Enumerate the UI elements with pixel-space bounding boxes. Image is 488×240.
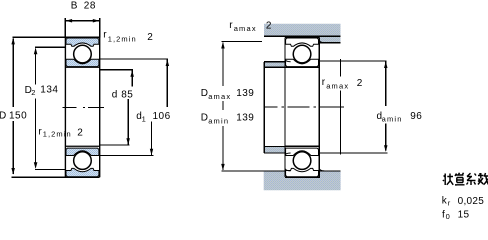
d_a level extension lines	[320, 61, 388, 153]
svg-text:106: 106	[153, 111, 171, 122]
svg-text:2: 2	[31, 88, 35, 97]
svg-text:139: 139	[236, 112, 254, 123]
ball (bottom section)	[293, 152, 311, 170]
svg-text:85: 85	[121, 89, 133, 100]
dimension D2: extension lines	[35, 47, 65, 169]
bearing outline left view	[65, 37, 99, 177]
svg-text:f: f	[442, 209, 445, 220]
inner ring bottom section	[286, 148, 319, 155]
svg-text:d: d	[112, 89, 118, 100]
svg-text:amax: amax	[234, 24, 257, 33]
svg-text:amax: amax	[208, 92, 231, 101]
svg-text:134: 134	[40, 85, 58, 96]
outer ring bottom section	[66, 168, 99, 176]
dimension D: extension lines (top edge + bottom edge extended)	[13, 36, 100, 38]
svg-text:2: 2	[147, 32, 153, 43]
fillet r_a housing bottom right	[319, 168, 324, 171]
svg-text:amin: amin	[382, 115, 403, 124]
housing top block	[264, 24, 341, 43]
dimension d_amin: leaders + arrows	[385, 61, 387, 150]
housing bottom outline	[285, 171, 341, 178]
svg-text:1,2min: 1,2min	[43, 130, 72, 139]
svg-text:15: 15	[458, 209, 470, 220]
svg-text:D: D	[201, 88, 208, 99]
bore lines left view	[65, 67, 99, 146]
housing bottom block	[264, 171, 341, 190]
dimension Da: arrows	[221, 42, 225, 49]
svg-text:1,2min: 1,2min	[108, 35, 137, 44]
right bearing section	[285, 38, 319, 177]
svg-text:B: B	[71, 0, 78, 11]
svg-text:139: 139	[236, 88, 254, 99]
bearing outline right view	[285, 38, 319, 177]
dimension B: arrows	[66, 19, 73, 23]
svg-text:28: 28	[84, 0, 96, 11]
svg-text:D: D	[0, 111, 6, 122]
housing top outline	[264, 36, 341, 42]
dimension d: extension + leaders + arrows	[100, 69, 133, 71]
svg-text:0,025: 0,025	[458, 196, 485, 207]
svg-text:2: 2	[357, 78, 363, 89]
header 计算系数 (stylized strokes)	[443, 173, 488, 185]
svg-text:amin: amin	[208, 117, 229, 126]
svg-text:2: 2	[266, 21, 272, 32]
inner ring bottom section	[66, 148, 99, 155]
dimension d1: extension + leaders + arrows	[100, 58, 168, 60]
dimension D: arrows	[11, 38, 15, 45]
dimension Da: extension lines	[222, 42, 285, 171]
svg-text:2: 2	[77, 128, 83, 139]
inner ring top section	[286, 59, 319, 66]
dimension D2: arrows	[34, 48, 38, 55]
svg-text:D: D	[201, 113, 208, 124]
shaft shoulder strip bottom	[264, 146, 285, 153]
svg-text:96: 96	[410, 111, 422, 122]
fillet r_a bottom shaft	[285, 153, 291, 155]
shaft break line	[263, 62, 265, 153]
dimension D: line	[12, 39, 14, 175]
shaft shoulder strip top	[264, 62, 285, 68]
svg-text:amax: amax	[326, 81, 349, 90]
fillet r_a housing bottom left	[285, 168, 291, 171]
ball (bottom section)	[74, 152, 92, 170]
dimension B: extension lines	[65, 18, 100, 37]
fillet r_a housing top right	[319, 40, 324, 42]
dimension Da: line	[222, 43, 224, 170]
svg-text:0: 0	[446, 212, 450, 221]
r_a witness line (middle)	[340, 59, 342, 155]
svg-text:150: 150	[9, 111, 27, 122]
ball (top section)	[293, 45, 311, 63]
inner ring top section	[66, 59, 99, 66]
outer ring top section	[286, 38, 319, 46]
outer ring bottom section	[286, 168, 319, 176]
centerline left view	[62, 106, 104, 108]
ball (top section)	[74, 45, 92, 63]
outer ring top section	[66, 38, 99, 46]
fillet r_a top shaft	[285, 59, 291, 62]
svg-text:1: 1	[142, 115, 146, 124]
centerline right view	[263, 106, 344, 108]
dimension D2: line	[35, 48, 37, 167]
dimension B: line	[65, 20, 100, 22]
